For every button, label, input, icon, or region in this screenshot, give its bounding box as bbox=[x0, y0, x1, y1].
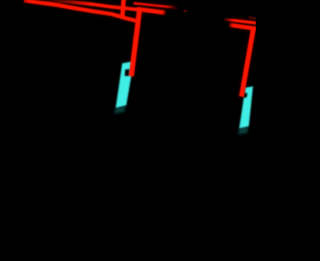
red wires group bbox=[24, 0, 256, 97]
wire A1 long bright diagonal bbox=[24, 1, 137, 21]
fleck bbox=[183, 10, 187, 12]
cyan pillar A shadow bbox=[114, 106, 126, 114]
wire A0 upper faint diagonal bbox=[42, 0, 139, 9]
notch on pillar A bbox=[125, 69, 130, 76]
pole stem B bbox=[242, 29, 254, 97]
cyan pillar A bbox=[116, 61, 134, 108]
pole V1 vertical bbox=[122, 0, 123, 16]
wire A3 short upper right bbox=[134, 3, 179, 8]
glow of red overhead wires bbox=[24, 0, 256, 97]
wire B1 bbox=[223, 19, 256, 23]
cyan pillar B shadow bbox=[238, 126, 249, 134]
notch on pillar B bbox=[244, 93, 248, 98]
crossarm A bbox=[137, 9, 166, 13]
faint wire B0 bbox=[249, 17, 256, 19]
cyan pillar B bbox=[239, 86, 253, 128]
crossarm B bbox=[229, 25, 256, 29]
pole stem A bbox=[131, 10, 139, 76]
